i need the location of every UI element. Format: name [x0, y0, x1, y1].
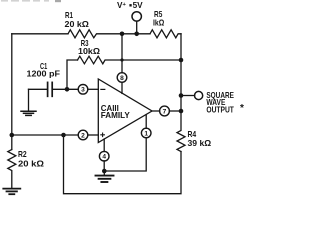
svg-text:5V: 5V [133, 1, 144, 10]
svg-text:1: 1 [144, 130, 148, 137]
svg-text:R1: R1 [65, 11, 73, 20]
svg-text:OUTPUT: OUTPUT [206, 106, 234, 115]
svg-text:2: 2 [81, 132, 85, 139]
svg-text:IkΩ: IkΩ [153, 18, 165, 27]
svg-text:R2: R2 [18, 150, 27, 159]
svg-text:8: 8 [120, 75, 124, 82]
svg-text:*: * [240, 103, 244, 114]
svg-text:3: 3 [81, 87, 85, 94]
svg-text:R4: R4 [188, 130, 197, 139]
svg-text:20 kΩ: 20 kΩ [65, 20, 90, 29]
svg-text:39 kΩ: 39 kΩ [188, 139, 212, 148]
svg-text:20 kΩ: 20 kΩ [18, 160, 45, 169]
svg-text:1200 pF: 1200 pF [27, 70, 61, 79]
svg-text:FAMILY: FAMILY [101, 111, 131, 120]
svg-text:10kΩ: 10kΩ [78, 47, 100, 56]
svg-text:4: 4 [102, 154, 106, 161]
svg-text:7: 7 [163, 108, 167, 115]
